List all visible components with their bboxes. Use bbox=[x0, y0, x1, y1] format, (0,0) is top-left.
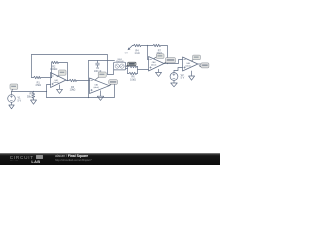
svg-text:5 V: 5 V bbox=[181, 77, 185, 80]
ground below R5 bbox=[31, 100, 37, 104]
svg-text:(ideal): (ideal) bbox=[94, 87, 100, 89]
annotation tag OA4 bbox=[191, 55, 200, 61]
op-amp OA4 bbox=[183, 57, 198, 71]
svg-text:(ideal): (ideal) bbox=[53, 82, 59, 84]
resistor R1 bbox=[32, 76, 51, 78]
wire global top feedback bbox=[32, 55, 108, 75]
svg-text:(ideal): (ideal) bbox=[151, 64, 157, 66]
resistor R4 bbox=[132, 44, 147, 46]
svg-text:50kΩ: 50kΩ bbox=[27, 95, 33, 98]
CircuitLab logo bbox=[10, 155, 34, 160]
annotation tag R6 (dark) bbox=[126, 62, 136, 66]
junction dots bbox=[33, 45, 168, 98]
svg-text:1 kΩ: 1 kΩ bbox=[135, 52, 140, 55]
svg-text:5 V: 5 V bbox=[18, 99, 22, 102]
ground below OA1 bbox=[57, 85, 63, 94]
svg-text:47kΩ: 47kΩ bbox=[35, 84, 41, 87]
wire node to OA3 minus bbox=[148, 46, 149, 60]
svg-text:(ideal): (ideal) bbox=[185, 65, 191, 67]
ground below V1 bbox=[9, 102, 14, 109]
op-amp OA3 bbox=[149, 57, 165, 72]
parallel resistors R6 bbox=[128, 67, 138, 74]
wire V2 to OA4 plus input bbox=[174, 68, 183, 71]
wire inner top loop bbox=[89, 60, 115, 62]
ground below OA3 bbox=[156, 69, 162, 76]
capacitor C1 bbox=[96, 61, 100, 68]
footer bar bbox=[0, 153, 220, 165]
component value labels bbox=[18, 49, 185, 102]
probe label at OA2 output bbox=[109, 80, 118, 86]
diode box component bbox=[108, 70, 114, 75]
svg-text:10kΩ: 10kΩ bbox=[70, 89, 76, 92]
annotation tag V1 bbox=[10, 84, 18, 92]
svg-text:1N4148: 1N4148 bbox=[116, 61, 124, 63]
probe label at OA3 output bbox=[164, 58, 175, 64]
ground below OA2 bbox=[97, 91, 103, 101]
voltage source V2 bbox=[170, 73, 178, 81]
ground below OA4 bbox=[189, 71, 195, 80]
wire V1 to node bbox=[12, 91, 47, 93]
wire left vertical to R1 bbox=[31, 55, 33, 78]
probe label at OA4 output bbox=[199, 63, 209, 68]
footer text bbox=[55, 154, 88, 158]
op-amp OA1 bbox=[51, 73, 67, 88]
voltage source V1 bbox=[8, 95, 16, 103]
power supply arrow bbox=[129, 46, 132, 49]
wire bottom loop bbox=[47, 84, 115, 98]
resistor R5 vertical bbox=[32, 92, 34, 101]
annotation tag OA3 bbox=[154, 54, 164, 59]
svg-text:100kΩ: 100kΩ bbox=[50, 68, 57, 71]
wire OA4 output bbox=[198, 63, 201, 65]
annotation tag OA2 bbox=[95, 72, 106, 80]
svg-text:10kΩ: 10kΩ bbox=[130, 78, 136, 81]
annotation tag OA1 bbox=[57, 70, 66, 77]
op-amp OA2 bbox=[90, 78, 110, 94]
ground below V2 bbox=[171, 80, 178, 86]
wire node up to OA1 plus input bbox=[47, 85, 51, 98]
resistor R2 feedback bbox=[52, 61, 68, 80]
resistor R3 bbox=[66, 79, 90, 81]
wire OA3 output to OA4 minus bbox=[164, 60, 183, 64]
wire OA2 minus vertical bbox=[88, 61, 90, 98]
op-amp inner labels bbox=[53, 61, 191, 89]
resistor R7 feedback bbox=[148, 44, 168, 63]
svg-text:5 V: 5 V bbox=[125, 52, 129, 54]
